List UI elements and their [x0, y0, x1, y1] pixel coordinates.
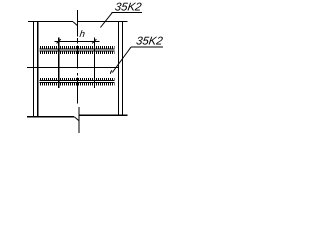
column left flange inner line	[37, 22, 39, 118]
dimension oblique tick left	[57, 39, 61, 43]
svg-text:35K2: 35K2	[114, 2, 143, 14]
dimension oblique tick right	[92, 39, 96, 43]
upper stiffener plate top edge	[40, 48, 115, 50]
column right flange inner line	[118, 21, 120, 116]
top break zigzag	[73, 22, 78, 26]
weld ticks above upper plate	[40, 46, 115, 49]
dimension text h	[79, 29, 86, 40]
svg-text:35K2: 35K2	[135, 35, 164, 47]
label underline 35K2 top	[111, 12, 142, 14]
weld ticks below upper plate	[40, 51, 115, 54]
weld ticks above lower plate	[40, 78, 115, 80]
top break line right segment	[78, 21, 128, 23]
column left flange outer line	[33, 22, 35, 118]
dimension line h	[55, 40, 100, 42]
leader line 35K2 top	[100, 13, 112, 28]
column right flange outer line	[122, 21, 124, 116]
bottom break zigzag	[74, 117, 79, 121]
mid splice joint line	[27, 67, 119, 69]
vertical branch left edge	[58, 37, 60, 88]
vertical branch right edge	[93, 37, 95, 88]
label 35K2 top	[114, 2, 143, 14]
top break line left segment	[28, 21, 73, 23]
leader arrow barb 35K2 right	[110, 70, 112, 74]
leader line 35K2 right	[112, 47, 131, 72]
weld ticks below lower plate	[40, 83, 115, 86]
bottom break line right segment	[79, 114, 127, 116]
lower stiffener plate top edge	[40, 80, 115, 82]
label underline 35K2 right	[131, 46, 163, 48]
bottom break line left segment	[27, 116, 74, 118]
label 35K2 right	[135, 35, 164, 47]
lower stiffener plate bottom edge	[40, 82, 115, 84]
upper stiffener plate bottom edge	[40, 50, 115, 52]
column centre axis line (dash-dot, runs through both breaks)	[78, 10, 79, 133]
